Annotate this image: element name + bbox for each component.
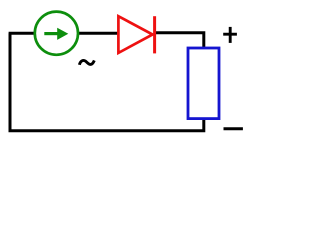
AC tilde label (79, 60, 94, 64)
diode D1 cathode bar (153, 16, 156, 53)
current source arrow head (57, 28, 68, 40)
diode D1 triangle (anode) (118, 16, 152, 53)
current source arrow shaft (44, 32, 59, 35)
wire: left vertical + bottom + right riser to load bottom (10, 33, 204, 131)
plus label: vertical stroke (229, 27, 232, 43)
current source I1 (circle) (35, 12, 78, 55)
wire: source to diode (79, 32, 120, 35)
minus label (224, 127, 243, 130)
wire: diode to corner, down to load top (156, 33, 204, 49)
plus label: horizontal stroke (223, 33, 237, 36)
wire: top-left segment from corner to source (9, 32, 35, 35)
load resistor R1 (rectangle) (188, 48, 219, 119)
